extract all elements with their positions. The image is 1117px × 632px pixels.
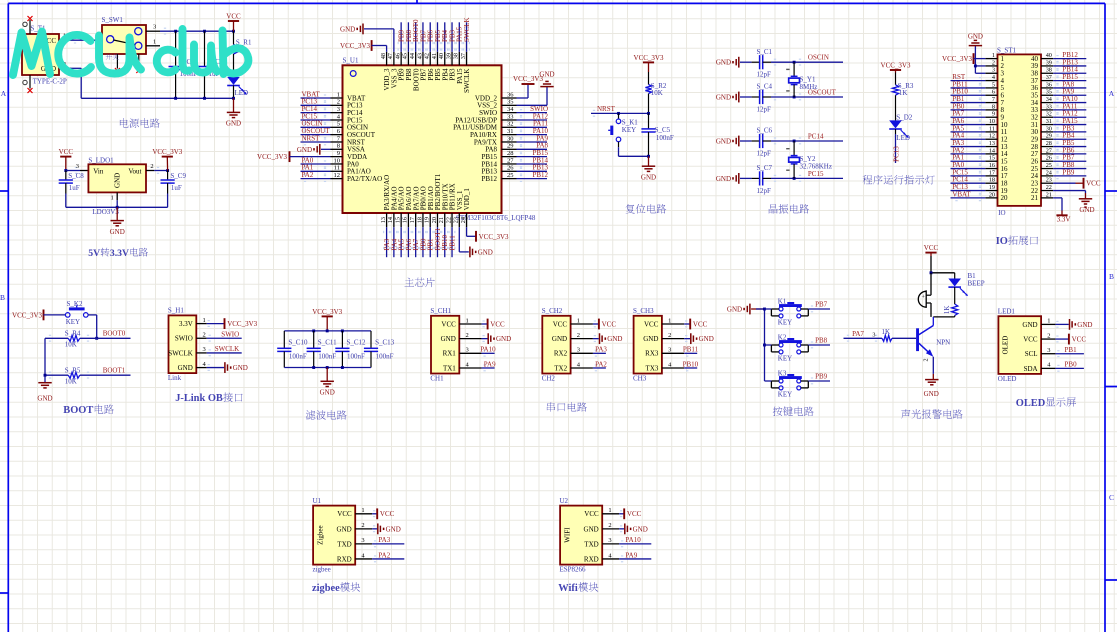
svg-text:3.3V: 3.3V (1057, 216, 1071, 224)
junction top rail C3 (203, 30, 206, 33)
svg-text:OLED: OLED (998, 375, 1017, 383)
svg-text:100nF: 100nF (318, 352, 336, 360)
svg-text:GND: GND (297, 146, 312, 154)
svg-text:10: 10 (334, 157, 341, 164)
svg-text:S_C6: S_C6 (757, 127, 773, 135)
power port 3.3V ST1 pin21 (1053, 198, 1070, 224)
pin 4 CH1 (459, 361, 481, 368)
pin 5 ST1 (985, 81, 1004, 92)
svg-text:16: 16 (989, 162, 995, 169)
regulator LDO1 (88, 156, 146, 216)
svg-text:3: 3 (203, 346, 206, 353)
svg-text:5: 5 (992, 81, 995, 88)
svg-text:VCC: VCC (602, 320, 617, 328)
pin 2 LDO1 (146, 163, 154, 171)
wire net PA9 U1 (517, 134, 549, 145)
label B1 BEEP (968, 272, 985, 288)
wire net PA3 ST1 left (951, 139, 986, 150)
svg-text:25: 25 (1046, 162, 1052, 169)
svg-text:24: 24 (460, 217, 467, 223)
pin 1 LED1 (1041, 318, 1055, 325)
wire net PA9 ST1 right (1053, 88, 1086, 99)
svg-text:1: 1 (110, 194, 113, 201)
button K1 reset (608, 113, 638, 147)
capacitor C9 (161, 171, 187, 208)
svg-text:3: 3 (76, 163, 79, 170)
ground GND boot (37, 383, 52, 403)
svg-text:GND: GND (643, 335, 658, 343)
svg-text:zigbee: zigbee (312, 583, 340, 594)
no-ERC marker SW1 pin a (115, 68, 120, 73)
svg-text:43: 43 (416, 53, 423, 59)
svg-text:GND: GND (320, 389, 335, 397)
switch SW1 (102, 16, 147, 69)
capacitor C3 (197, 31, 224, 98)
svg-text:37: 37 (460, 53, 467, 59)
power ground GND CH2 pin2 (593, 333, 623, 344)
pin 3 U2W (602, 537, 619, 544)
svg-text:1uF: 1uF (171, 184, 182, 192)
wire net PB3 U1 top (448, 22, 456, 52)
svg-text:36: 36 (507, 91, 514, 98)
power ground GND LED1 pin1 (1055, 319, 1092, 330)
svg-text:PB8: PB8 (815, 336, 828, 344)
svg-text:7: 7 (992, 96, 995, 103)
pin 27 U1 PB14 (481, 157, 516, 168)
svg-text:3: 3 (872, 332, 875, 339)
wire indicator PC13 (893, 134, 901, 163)
pin 17 ST1 (985, 169, 1008, 180)
wire net PA6 ST1 left (951, 117, 986, 128)
wire K2 to BOOT0 (88, 315, 97, 338)
junction filter bottom c11 (312, 366, 315, 369)
pin 33 U1 PA12/USB/DP (455, 113, 516, 124)
svg-text:CH2: CH2 (542, 375, 556, 383)
pin 7 ST1 (985, 96, 1004, 107)
svg-text:21: 21 (1046, 191, 1052, 198)
pin 25 U1 PB12 (481, 172, 516, 183)
pin 47 U1 VSS_3 (387, 52, 398, 89)
wire net PA11 ST1 right (1053, 102, 1086, 113)
svg-text:34: 34 (1046, 96, 1052, 103)
svg-text:B: B (0, 293, 5, 302)
junction filter top vcc (326, 329, 329, 332)
svg-text:VCC: VCC (337, 510, 352, 518)
svg-text:3: 3 (337, 106, 340, 113)
svg-text:5V: 5V (88, 248, 100, 259)
svg-text:TXD: TXD (337, 540, 351, 548)
svg-text:TX2: TX2 (554, 364, 567, 372)
power port VCC_3V3 indicator (881, 61, 911, 72)
svg-text:8: 8 (337, 143, 340, 150)
pin 38 ST1 (1031, 67, 1053, 78)
pin 5 U1 OSCIN (331, 121, 369, 132)
wire net VBAT ST1 left (951, 190, 986, 201)
svg-text:PC14: PC14 (808, 133, 824, 141)
wire net PB12 U1 (517, 171, 549, 182)
button K2 (771, 333, 808, 362)
pin 28 U1 PB15 (481, 150, 516, 161)
wire net PC15 U1 (301, 112, 331, 123)
svg-text:23: 23 (1046, 177, 1052, 184)
pin 36 ST1 (1031, 81, 1053, 92)
svg-text:RXD: RXD (337, 555, 352, 563)
pin 29 U1 PA8 (485, 143, 516, 154)
svg-text:Vin: Vin (93, 167, 104, 175)
pin 48 U1 VDD_3 (380, 52, 391, 91)
pin 8 ST1 (985, 103, 1004, 114)
pin 2 U1Z (355, 522, 372, 529)
wire net PB5 ST1 right (1053, 139, 1086, 150)
svg-text:1K: 1K (943, 306, 951, 315)
wire T1 pin1 to SW1 (71, 37, 102, 44)
svg-text:VCC_3V3: VCC_3V3 (12, 311, 42, 319)
wire net PB8 U1 top (405, 22, 413, 52)
svg-text:4: 4 (992, 74, 995, 81)
svg-text:GND: GND (716, 138, 731, 146)
svg-text:J-Link OB: J-Link OB (175, 393, 223, 404)
wire net PB11 U1 bottom (448, 227, 456, 257)
wire ldo bottom rail (66, 206, 168, 208)
svg-text:NPN: NPN (936, 338, 950, 346)
power ground GND ST1 pins 2 3 (968, 32, 985, 73)
svg-text:VCC_3V3: VCC_3V3 (881, 61, 911, 69)
wire alarm top (931, 256, 955, 273)
pin 35 U1 VSS_2 (477, 99, 516, 110)
svg-text:3: 3 (992, 67, 995, 74)
wire net PB10 U1 bottom (441, 227, 449, 257)
pin 9 ST1 (985, 111, 1004, 122)
power port VCC_3V3 U1 VDD_1 (467, 227, 509, 242)
power port VCC U2W pin1 (619, 508, 642, 519)
wire net PA7 base (844, 330, 883, 342)
svg-text:PB12: PB12 (532, 171, 548, 179)
wire net PA10 U2W pin3 (619, 536, 651, 547)
capacitor C5 (641, 113, 674, 156)
wire net PB1 U1 bottom (427, 227, 435, 257)
pin 4 U1Z (355, 552, 372, 559)
svg-text:ESP8266: ESP8266 (560, 566, 587, 574)
pin 2 CH2 (571, 332, 593, 339)
svg-text:2: 2 (992, 59, 995, 66)
svg-text:SWIO: SWIO (175, 335, 193, 343)
wire net PB1 LED1 pin3 (1055, 346, 1084, 357)
wire net BOOT0 U1 top (412, 19, 420, 52)
wire net PA1 ST1 left (951, 154, 986, 165)
svg-text:PB10: PB10 (683, 360, 699, 368)
svg-text:VCC: VCC (924, 244, 939, 252)
svg-text:31: 31 (1046, 118, 1052, 125)
pin 3 CH1 (459, 347, 481, 354)
svg-text:18: 18 (416, 217, 423, 223)
svg-text:2: 2 (668, 332, 671, 339)
pin 11 ST1 (985, 125, 1007, 136)
svg-text:GND: GND (340, 25, 355, 33)
no-ERC marker T1 top (28, 16, 33, 21)
svg-text:3.3V: 3.3V (110, 248, 129, 259)
svg-text:TX3: TX3 (646, 364, 659, 372)
svg-text:KEY: KEY (66, 318, 80, 326)
pin 6 U1 OSCOUT (331, 128, 376, 139)
svg-text:BOOT1: BOOT1 (103, 367, 126, 375)
wire net PB9 K3 (765, 372, 831, 384)
svg-text:GND: GND (1077, 321, 1092, 329)
svg-text:S_H1: S_H1 (168, 307, 184, 315)
svg-text:47: 47 (387, 53, 394, 59)
pin 20 U1 PB2/BOOT1 (431, 173, 442, 227)
svg-text:S_U1: S_U1 (343, 57, 359, 65)
wire net PA7 ST1 left (951, 110, 986, 121)
svg-text:NRST: NRST (597, 105, 616, 113)
svg-text:24: 24 (1046, 169, 1052, 176)
svg-text:30: 30 (1046, 125, 1052, 132)
svg-text:10: 10 (989, 118, 995, 125)
power ground GND U1 VSS_3 (340, 24, 394, 52)
svg-text:29: 29 (1046, 133, 1052, 140)
pin 3 LED1 (1041, 347, 1055, 354)
svg-text:GND: GND (337, 525, 352, 533)
power ground GND CH1 pin2 (482, 333, 512, 344)
svg-text:19: 19 (424, 217, 431, 223)
pin 3 CH3 (662, 347, 684, 354)
pin 43 U1 PB7 (416, 52, 427, 81)
svg-text:S_CH1: S_CH1 (430, 307, 451, 315)
wire net PB12 ST1 right (1053, 51, 1086, 62)
wire net SWCLK H1 pin3 (207, 345, 242, 356)
svg-text:VDD_1: VDD_1 (463, 188, 471, 211)
power ground GND keys (727, 304, 765, 315)
pin 16 U1 PA6/AO (402, 186, 413, 227)
svg-text:15: 15 (989, 155, 995, 162)
wire key bus (764, 309, 766, 381)
pin 3 LDO1 (76, 163, 89, 171)
svg-text:KEY: KEY (778, 391, 792, 399)
svg-text:S_C12: S_C12 (347, 339, 367, 347)
junction alarm top (930, 271, 933, 274)
svg-text:VCC_3V3: VCC_3V3 (634, 54, 664, 62)
svg-text:PB11: PB11 (683, 346, 699, 354)
pin 3 CH2 (571, 347, 593, 354)
svg-text:20: 20 (989, 191, 995, 198)
svg-text:GND: GND (641, 173, 656, 181)
svg-text:VCC: VCC (693, 320, 708, 328)
power ground GND C4 (716, 92, 752, 103)
svg-text:31: 31 (507, 128, 514, 135)
wire net PB9 ST1 right (1053, 168, 1086, 179)
svg-text:Link: Link (168, 374, 182, 382)
svg-text:PA2/TX/AO: PA2/TX/AO (347, 175, 382, 183)
pin 40 ST1 (1031, 52, 1053, 63)
svg-text:S_C13: S_C13 (375, 339, 395, 347)
svg-text:S_CH3: S_CH3 (633, 307, 654, 315)
resistor R alarm 1K (943, 304, 958, 317)
capacitor C10 (277, 331, 308, 368)
svg-text:2: 2 (337, 99, 340, 106)
pin 16 ST1 (985, 162, 1008, 173)
svg-text:U1: U1 (313, 497, 322, 505)
resistor R5 (45, 367, 131, 386)
junction PC14 Y2 (793, 140, 796, 143)
svg-text:GND: GND (924, 390, 939, 398)
capacitor C11 (307, 331, 338, 368)
svg-text:S_C8: S_C8 (68, 172, 84, 180)
resistor R3 (892, 73, 913, 121)
wire net PC13 U1 (301, 98, 331, 109)
svg-text:S_C9: S_C9 (170, 172, 186, 180)
capacitor C6 (752, 127, 773, 158)
connector T1 TYPE-C-2P (22, 20, 67, 89)
pin 15 ST1 (985, 155, 1008, 166)
ground GND filter (320, 368, 335, 397)
pin 35 ST1 (1031, 89, 1053, 100)
power port VCC_3V3 U1 VDD_3 (340, 40, 387, 52)
svg-text:12: 12 (989, 133, 995, 140)
pin 21 U1 PB10/TX (438, 183, 449, 227)
pin 1 U1 VBAT (331, 91, 367, 102)
wire net PB6 ST1 right (1053, 146, 1086, 157)
svg-text:5: 5 (337, 121, 340, 128)
pin 26 U1 PB13 (481, 165, 516, 176)
junction vcc c8 (64, 169, 67, 172)
svg-text:28: 28 (507, 150, 514, 157)
svg-text:11: 11 (334, 165, 340, 172)
pin 42 U1 PB6 (424, 52, 435, 81)
svg-text:PB7: PB7 (815, 300, 828, 308)
wire vcc to Vin (66, 167, 80, 174)
svg-text:S_SW1: S_SW1 (102, 16, 124, 24)
svg-text:BEEP: BEEP (968, 280, 985, 288)
wire net PA1 U1 (301, 164, 331, 175)
svg-text:PA2: PA2 (302, 171, 314, 179)
svg-text:14: 14 (387, 217, 394, 223)
wire net PA12 U1 (517, 112, 549, 123)
svg-text:RX2: RX2 (554, 350, 568, 358)
svg-text:SDA: SDA (1024, 365, 1038, 373)
svg-text:1: 1 (203, 317, 206, 324)
power port VCC CH2 pin1 (593, 319, 616, 330)
svg-text:46: 46 (394, 53, 401, 59)
svg-text:1uF: 1uF (69, 184, 80, 192)
wire net PA12 ST1 right (1053, 110, 1086, 121)
svg-text:21: 21 (1031, 194, 1039, 202)
junction filter bottom c12 (341, 366, 344, 369)
wire net PB14 U1 (517, 156, 549, 167)
pin 1 CH1 (459, 317, 481, 324)
svg-text:S_C4: S_C4 (757, 83, 773, 91)
pin 31 ST1 (1031, 118, 1053, 129)
capacitor C1 (752, 48, 773, 79)
svg-text:40: 40 (438, 53, 445, 59)
svg-text:GND: GND (607, 335, 622, 343)
svg-text:VBAT: VBAT (952, 190, 971, 198)
wire net PA10 ST1 right (1053, 95, 1086, 106)
wire net NRST U1 (301, 134, 331, 145)
LED D2 (889, 113, 913, 142)
svg-text:U2: U2 (560, 497, 569, 505)
svg-text:13: 13 (989, 140, 995, 147)
button K3 (771, 369, 808, 398)
svg-text:6: 6 (992, 89, 995, 96)
svg-text:LED: LED (235, 89, 249, 97)
caption program indicator (863, 175, 935, 185)
pin 1 CH3 (662, 317, 684, 324)
svg-text:GND: GND (539, 71, 554, 79)
svg-text:36: 36 (1046, 81, 1052, 88)
pin 2 LED1 (1041, 332, 1055, 339)
wire net PB5 U1 top (434, 22, 442, 52)
svg-text:S_CH2: S_CH2 (542, 307, 563, 315)
connector LED1 body (998, 307, 1041, 383)
wire net PB14 ST1 right (1053, 66, 1086, 77)
pin 22 U1 PB11/RX (445, 183, 456, 227)
MCUclub logo (13, 29, 248, 75)
pin 10 ST1 (985, 118, 1008, 129)
pin 23 ST1 (1031, 177, 1053, 188)
power ground GND C1 (716, 57, 752, 68)
svg-text:Zigbee: Zigbee (316, 525, 324, 544)
pin 2 ST1 (985, 59, 1004, 70)
svg-text:17: 17 (409, 217, 416, 223)
wire net BOOT1 U1 bottom (434, 227, 442, 257)
svg-text:28: 28 (1046, 140, 1052, 147)
wire net RST ST1 left (951, 73, 986, 84)
pin 3 ST1 (985, 67, 1004, 78)
wire net PB4 ST1 right (1053, 132, 1086, 143)
wire C4 to OSCOUT (771, 89, 843, 101)
power port VCC ST1 pin23 (1053, 178, 1101, 189)
svg-text:1: 1 (1047, 318, 1050, 325)
pin 4 CH2 (571, 361, 593, 368)
svg-text:S_R5: S_R5 (65, 367, 81, 375)
svg-text:S_ST1: S_ST1 (997, 46, 1017, 54)
svg-text:22: 22 (1046, 184, 1052, 191)
wire net PA15 ST1 right (1053, 117, 1086, 128)
pin 39 U1 PB3 (445, 52, 456, 81)
pin 27 ST1 (1031, 147, 1053, 158)
svg-text:32.768KHz: 32.768KHz (800, 163, 832, 171)
ground GND power (226, 98, 241, 127)
svg-text:GND: GND (386, 525, 401, 533)
svg-text:VCC_3V3: VCC_3V3 (152, 148, 182, 156)
wire net PB10 CH3 pin4 (683, 360, 699, 371)
svg-text:Wifi: Wifi (558, 583, 578, 594)
svg-text:K1: K1 (778, 297, 787, 305)
pin 1 ST1 (985, 52, 1004, 63)
pin 39 ST1 (1031, 59, 1053, 70)
svg-text:GND: GND (233, 364, 248, 372)
wire net PA11 U1 (517, 120, 549, 131)
svg-text:S_D2: S_D2 (896, 113, 912, 121)
pin 34 U1 SWIO (479, 106, 516, 117)
wire net PA9 U2W pin4 (619, 551, 651, 562)
svg-text:32: 32 (1046, 111, 1052, 118)
svg-text:PA3: PA3 (595, 346, 607, 354)
wire net PB3 ST1 right (1053, 124, 1086, 135)
resistor R2 (645, 72, 666, 113)
wire K1 bottom (619, 147, 649, 156)
svg-text:GND: GND (584, 525, 599, 533)
svg-text:VCC_3V3: VCC_3V3 (479, 233, 509, 241)
wire net PB11 ST1 left (951, 80, 986, 91)
pin 8 U1 VSSA (331, 143, 365, 154)
pin 32 U1 PA11/USB/DM (453, 121, 516, 132)
power ground GND U1Z pin2 (372, 523, 401, 534)
pin 21 ST1 (1031, 191, 1053, 202)
wire filter bottom rail (284, 367, 371, 369)
pin 9 U1 VDDA (331, 150, 368, 161)
svg-text:9: 9 (992, 111, 995, 118)
wire net PB7 K1 (765, 300, 831, 312)
